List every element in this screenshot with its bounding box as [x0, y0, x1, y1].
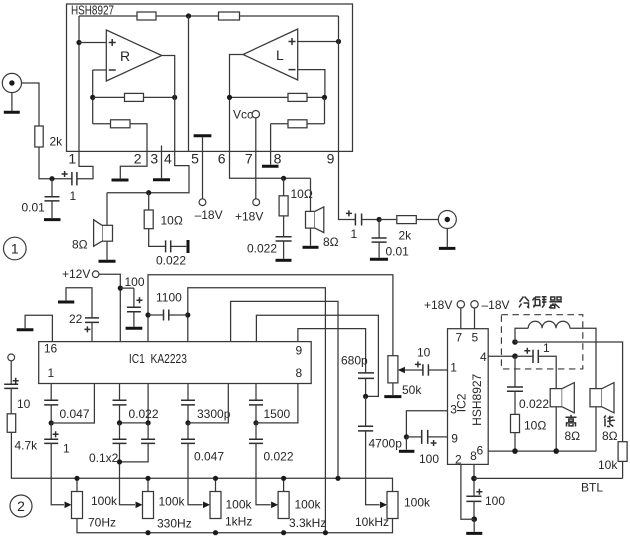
- svg-text:L: L: [276, 47, 284, 63]
- label fenpinqi glyphs: [519, 297, 562, 309]
- ground jack output: [446, 229, 448, 247]
- svg-text:HSH8927: HSH8927: [470, 373, 484, 425]
- svg-text:3.3kHz: 3.3kHz: [289, 516, 326, 530]
- wire L minus input: [298, 70, 325, 98]
- svg-text:10kHz: 10kHz: [355, 515, 389, 529]
- node L feedback left: [227, 95, 232, 100]
- svg-text:HSH8927: HSH8927: [71, 3, 114, 18]
- ground pin2: [112, 179, 129, 182]
- ground 0.01 output: [370, 258, 388, 261]
- node output line L: [281, 176, 286, 181]
- node R plus input: [76, 40, 81, 45]
- node pin3: [404, 434, 409, 439]
- terminal -18V: [199, 199, 206, 206]
- svg-text:1: 1: [11, 241, 19, 257]
- node pin6 crossover: [512, 448, 518, 454]
- svg-text:0.047: 0.047: [60, 407, 90, 421]
- wire L output elbow to pin6: [230, 55, 244, 152]
- svg-text:5: 5: [471, 331, 478, 345]
- svg-text:2k: 2k: [50, 135, 64, 149]
- svg-text:10: 10: [17, 397, 31, 411]
- svg-text:100k: 100k: [91, 494, 118, 508]
- section marker 2: [10, 495, 32, 517]
- svg-text:8Ω: 8Ω: [72, 238, 88, 252]
- svg-text:8Ω: 8Ω: [323, 235, 339, 249]
- svg-text:0.047: 0.047: [194, 449, 224, 463]
- svg-text:100k: 100k: [226, 498, 253, 512]
- terminal -18V IC2: [471, 301, 478, 308]
- svg-text:1: 1: [68, 151, 76, 167]
- svg-text:2: 2: [134, 151, 142, 167]
- wire R feedback row1: [93, 96, 175, 98]
- svg-text:330Hz: 330Hz: [157, 517, 192, 531]
- node 1100 left: [145, 312, 150, 317]
- svg-text:4: 4: [164, 151, 172, 167]
- capacitor 10uF EQ input: [10, 361, 12, 385]
- wire rail-C loop to pot rail: [231, 301, 338, 478]
- ground speaker left: [99, 260, 116, 263]
- capacitor 1100: [148, 314, 188, 316]
- resistor rail-left: [137, 12, 156, 20]
- node pin2-pin8: [471, 516, 477, 522]
- svg-text:IC1 KA2223: IC1 KA2223: [129, 351, 187, 366]
- wire top feedback rail: [79, 15, 339, 17]
- speaker L-channel 8ohm: [310, 178, 312, 211]
- resistor rail-right: [219, 12, 240, 20]
- svg-text:0.022: 0.022: [156, 254, 186, 268]
- glyph gao: [566, 415, 577, 427]
- terminal +18V: [253, 199, 260, 206]
- ground 100uF supply: [126, 327, 143, 330]
- svg-text:1: 1: [543, 341, 550, 355]
- svg-text:50k: 50k: [402, 383, 422, 397]
- wire pin5 stem: [202, 137, 204, 198]
- potentiometer 50k: [388, 356, 398, 383]
- wire R feedback row2: [93, 124, 147, 152]
- wire pin2: [461, 464, 474, 519]
- svg-text:1kHz: 1kHz: [225, 515, 252, 529]
- svg-text:0.022: 0.022: [264, 449, 294, 463]
- svg-text:6: 6: [218, 151, 226, 167]
- wire +12V to IC1: [99, 274, 120, 341]
- svg-text:7: 7: [456, 331, 463, 345]
- svg-text:5: 5: [191, 151, 199, 167]
- wire Vcc to pin7: [255, 118, 257, 199]
- svg-text:0.01: 0.01: [386, 244, 410, 258]
- capacitor 100uF pin8: [466, 496, 481, 501]
- capacitor 0.022 crossover: [514, 356, 516, 387]
- wire pin1 input column: [78, 16, 80, 151]
- band1: capacitor 0.047: [50, 384, 52, 401]
- svg-text:1: 1: [351, 227, 358, 241]
- svg-text:70Hz: 70Hz: [88, 516, 116, 530]
- svg-text:0.022: 0.022: [129, 407, 159, 421]
- capacitor 10uF IC2 input: [423, 364, 429, 375]
- resistor L feedback1: [288, 93, 307, 101]
- svg-text:1: 1: [450, 361, 457, 375]
- wire pin3 network: [406, 411, 447, 437]
- wire 2k to jack: [416, 219, 438, 221]
- wire R plus input: [79, 42, 106, 44]
- potentiometer 100k 1kHz: [215, 478, 217, 491]
- node rail-C at pot rail: [335, 476, 340, 481]
- node L feedback right: [322, 95, 327, 100]
- resistor 10ohm zobel right: [283, 178, 285, 196]
- svg-text:9: 9: [296, 344, 303, 358]
- ground pin2: [473, 519, 475, 532]
- node band2 left: [117, 420, 122, 425]
- wire pin3 to ground: [161, 146, 163, 179]
- capacitor 680p: [358, 373, 374, 379]
- resistor 2k input: [35, 126, 43, 147]
- svg-text:9: 9: [451, 431, 458, 445]
- svg-text:4700p: 4700p: [369, 437, 403, 451]
- ground zobel right: [276, 259, 292, 262]
- svg-text:100: 100: [485, 494, 505, 508]
- node +12V rail: [118, 286, 123, 291]
- svg-text:680p: 680p: [341, 354, 368, 368]
- svg-text:1100: 1100: [156, 291, 182, 305]
- svg-text:+12V: +12V: [62, 267, 90, 281]
- speaker R-channel 8ohm: [106, 193, 108, 226]
- svg-text:10k: 10k: [598, 458, 618, 472]
- resistor 10ohm crossover: [514, 391, 516, 414]
- potentiometer 100k 3.3kHz: [283, 478, 285, 491]
- glyph di: [604, 416, 615, 427]
- node 1100 right: [185, 312, 190, 317]
- capacitor 22uF: [66, 288, 92, 318]
- node L plus input: [336, 39, 341, 44]
- speaker woofer 8ohm: [590, 389, 602, 407]
- svg-text:100k: 100k: [295, 498, 322, 512]
- node crossover pin4: [512, 353, 518, 359]
- band3: capacitor 3300p: [187, 384, 189, 401]
- wire crossover to 10k: [515, 342, 623, 442]
- svg-text:+18V: +18V: [235, 210, 263, 224]
- resistor R feedback2: [111, 120, 131, 128]
- svg-text:22: 22: [69, 312, 83, 326]
- node rail-B at bottom rail: [323, 530, 328, 535]
- capacitor 1uF crossover: [524, 348, 530, 354]
- resistor L feedback2: [288, 120, 307, 128]
- svg-text:+18V: +18V: [424, 298, 452, 312]
- ground IC1 top-left jog: [25, 315, 52, 341]
- wire supply stems IC2: [461, 308, 475, 329]
- node speaker line: [146, 190, 151, 195]
- svg-text:4: 4: [480, 350, 487, 364]
- svg-text:1: 1: [47, 366, 54, 380]
- wire R output elbow to pin4: [162, 56, 175, 152]
- wire pin2 to ground: [120, 151, 147, 178]
- svg-text:100: 100: [125, 275, 145, 289]
- wire L feedback row1: [230, 96, 325, 98]
- wire band3 loop: [188, 384, 228, 423]
- wire L plus input: [298, 41, 339, 43]
- capacitor 0.1x2 left: [119, 423, 121, 439]
- node output: [377, 217, 382, 222]
- node crossover top: [512, 339, 518, 345]
- wire rail-B loop to bottom rail: [188, 288, 326, 533]
- ground pin8: [270, 151, 272, 164]
- capacitor 4700p: [365, 396, 367, 426]
- wire L feedback row2: [271, 97, 325, 151]
- svg-text:16: 16: [44, 342, 58, 356]
- band4: capacitor 1500: [255, 384, 257, 401]
- node band2 join: [117, 459, 122, 464]
- IC box U-top HSH8927 outline: [67, 4, 353, 151]
- wire band4 loop pin8: [256, 384, 298, 423]
- ground 50k: [384, 395, 401, 398]
- ground pin3: [153, 178, 170, 181]
- svg-text:3: 3: [150, 151, 158, 167]
- svg-text:1: 1: [70, 189, 77, 203]
- wire pin6 output line: [230, 151, 311, 178]
- wire pot bottom rail: [77, 519, 393, 533]
- svg-text:8: 8: [296, 366, 303, 380]
- wire rail-D loop to 680p node: [256, 315, 378, 396]
- op-amp R: [106, 30, 162, 81]
- svg-text:10Ω: 10Ω: [291, 187, 313, 201]
- resistor R feedback1: [125, 93, 144, 101]
- svg-text:100k: 100k: [159, 495, 186, 509]
- speaker tweeter 8ohm: [550, 389, 562, 407]
- wire pin9 output column: [338, 16, 340, 151]
- wiper 50k arrow: [399, 369, 423, 371]
- box crossover dashed: [501, 315, 582, 369]
- potentiometer 100k 330Hz: [147, 478, 149, 491]
- ground pin3: [405, 437, 407, 450]
- wire cap to pin1: [77, 151, 93, 178]
- svg-text:8: 8: [274, 151, 282, 167]
- svg-text:2k: 2k: [399, 228, 413, 242]
- wire band1 to wiper1: [51, 443, 64, 504]
- capacitor 0.01 output: [378, 220, 380, 239]
- wire BTL rail: [474, 477, 623, 479]
- svg-text:100: 100: [419, 452, 439, 466]
- node band2 right: [146, 420, 151, 425]
- wire pin4 jog to speaker line: [107, 151, 189, 192]
- ground bar internal pin5: [194, 134, 212, 137]
- capacitor 0.1x2 right: [147, 423, 149, 439]
- IC box IC1 KA2223: [39, 342, 312, 384]
- svg-text:BTL: BTL: [581, 480, 603, 494]
- capacitor 100uF pin9: [406, 436, 421, 438]
- ground jack input: [11, 93, 13, 111]
- wire rail-A pin16 loop to 50k: [148, 275, 393, 356]
- band2: capacitor 0.022: [119, 384, 121, 401]
- node rail junction: [186, 13, 191, 18]
- svg-text:0.022: 0.022: [519, 397, 549, 411]
- ground bar zobel left: [187, 240, 190, 253]
- wire 2k to node: [39, 147, 72, 179]
- wire jack to 2k: [22, 83, 40, 126]
- svg-text:Vcc: Vcc: [233, 108, 253, 122]
- svg-text:3300p: 3300p: [197, 407, 231, 421]
- wire rail-E pin9 to 680p: [298, 329, 366, 373]
- svg-text:1500: 1500: [264, 407, 291, 421]
- resistor 2k output: [379, 219, 397, 221]
- svg-text:0.022: 0.022: [247, 242, 277, 256]
- node 680p-4700p: [363, 394, 368, 399]
- resistor 4.7k: [7, 414, 16, 433]
- IC box IC2 HSH8927: [448, 329, 489, 465]
- node pin6 tweeter: [553, 448, 559, 454]
- capacitor 100uF supply: [120, 288, 134, 307]
- svg-text:6: 6: [476, 444, 483, 458]
- capacitor 0.022 band4: [255, 423, 257, 439]
- svg-text:7: 7: [245, 151, 253, 167]
- svg-text:–18V: –18V: [482, 298, 510, 312]
- svg-text:IC2: IC2: [455, 393, 469, 412]
- svg-text:8Ω: 8Ω: [565, 429, 581, 443]
- svg-text:2: 2: [17, 498, 25, 514]
- node band3: [185, 420, 190, 425]
- wire band1 loop: [51, 384, 94, 424]
- svg-text:2: 2: [455, 452, 462, 466]
- wire pin9 to output cap: [339, 151, 356, 219]
- capacitor 0.022 zobel right: [283, 216, 285, 237]
- svg-text:–18V: –18V: [195, 208, 223, 222]
- resistor 10k: [618, 442, 627, 462]
- svg-text:0.1x2: 0.1x2: [89, 451, 119, 465]
- node input: [49, 176, 54, 181]
- capacitor 1uF input: [72, 172, 77, 185]
- svg-text:10: 10: [417, 345, 431, 359]
- wire internal vertical from rail to box bottom: [188, 16, 190, 151]
- wire 4.7k to pot rail: [11, 432, 392, 491]
- section marker 1: [4, 237, 27, 260]
- potentiometer 100k 70Hz: [76, 478, 78, 491]
- capacitor 1uF output: [355, 214, 361, 226]
- resistor 10ohm zobel left: [148, 193, 150, 210]
- terminal EQ input: [8, 354, 15, 361]
- svg-text:100k: 100k: [404, 495, 431, 509]
- wire pin6 line: [488, 450, 596, 452]
- node R feedback right: [172, 95, 177, 100]
- wire pin4 to crossover: [488, 355, 515, 357]
- ground speaker right: [303, 246, 319, 249]
- svg-text:8Ω: 8Ω: [602, 429, 618, 443]
- capacitor 0.022 zobel left: [149, 229, 166, 247]
- capacitor 0.047 band3: [187, 423, 189, 439]
- jack RCA output: [438, 211, 456, 229]
- svg-text:4.7k: 4.7k: [15, 439, 39, 453]
- node band4: [253, 420, 258, 425]
- jack RCA input: [2, 73, 21, 92]
- svg-text:9: 9: [327, 151, 335, 167]
- potentiometer 100k 10kHz: [387, 492, 398, 519]
- node R feedback left: [90, 95, 95, 100]
- node band1: [49, 420, 54, 425]
- capacitor 1uF band1: [50, 423, 52, 439]
- op-amp L: [243, 29, 298, 80]
- wire R minus input: [93, 70, 107, 124]
- svg-text:0.01: 0.01: [22, 200, 46, 214]
- svg-text:R: R: [120, 48, 130, 64]
- svg-text:10Ω: 10Ω: [524, 418, 546, 432]
- svg-text:10Ω: 10Ω: [161, 213, 183, 227]
- inductor crossover: [515, 328, 528, 342]
- wire pin8 network: [473, 464, 475, 496]
- node pin8: [471, 476, 477, 482]
- capacitor 0.01 input: [51, 179, 53, 197]
- svg-text:1: 1: [63, 442, 70, 456]
